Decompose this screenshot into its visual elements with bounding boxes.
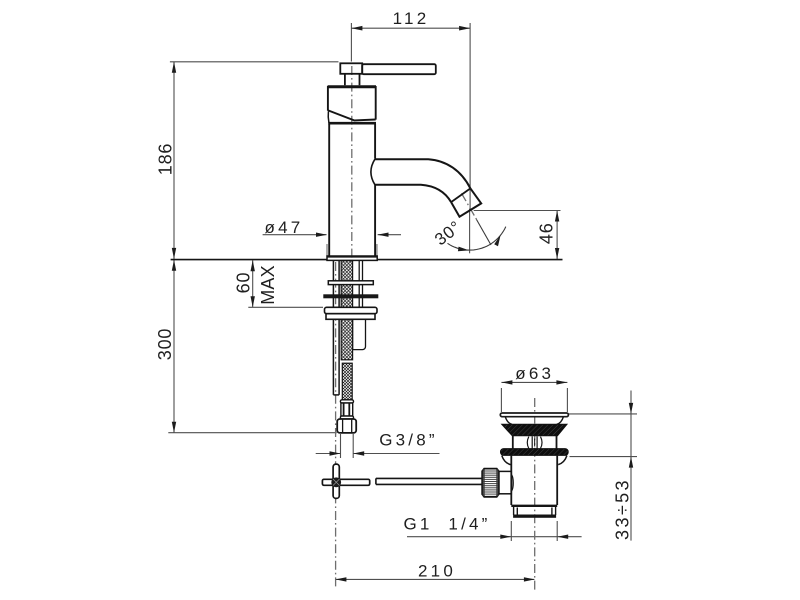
mounting nut (325, 307, 378, 319)
housing top edge (328, 85, 376, 88)
lever bar fill (340, 63, 362, 74)
dimension o47 lines (263, 234, 327, 236)
svg-text:46: 46 (537, 222, 557, 244)
svg-text:ø47: ø47 (265, 218, 304, 237)
threaded shank (crosshatched) (341, 261, 352, 360)
arrows 300 (172, 260, 176, 271)
drain knurled nut (482, 469, 499, 497)
svg-text:MAX: MAX (258, 265, 278, 305)
right hose tube lines (353, 261, 366, 350)
drain plug mechanism (527, 436, 542, 448)
dimension 60 MAX line (252, 260, 254, 307)
arrows 30 degree arc (458, 247, 469, 252)
pop-up rod centerline (335, 262, 337, 589)
arrows 112 (351, 26, 362, 31)
arrowheads (172, 26, 633, 582)
dimension texts (155, 9, 633, 580)
spout fill (375, 158, 482, 216)
dimension 210 line (336, 578, 534, 580)
base flange fill (327, 256, 377, 260)
spout end cap (451, 188, 481, 216)
spout bottom edge (375, 185, 452, 202)
lever bar outline (340, 63, 362, 74)
drain side inlet stub (499, 471, 511, 493)
pop-up tee knurled ball (331, 477, 341, 487)
pop-up tee vertical bar (333, 464, 339, 498)
pop-up tee horizontal bar (322, 479, 369, 485)
arrows 33:53 (629, 403, 633, 414)
arrows o47 (316, 233, 327, 237)
svg-text:112: 112 (393, 9, 430, 28)
drain flange (dark hatched) (501, 449, 569, 456)
faucet body fill (329, 122, 375, 257)
body top edge (328, 122, 376, 125)
svg-text:300: 300 (155, 328, 175, 360)
spout axis solid lower part (477, 220, 492, 246)
drain inlet inner arc (512, 475, 514, 491)
drain cone (dark hatched) (502, 424, 567, 436)
spout axis line (462, 193, 479, 222)
30 degree arc (448, 227, 506, 251)
hose collar ring 2 (340, 416, 353, 419)
drain body bottom edge (511, 505, 557, 507)
stem fill (345, 74, 360, 86)
dimension G1 1/4 (407, 536, 582, 538)
dimension 46 (474, 210, 561, 212)
svg-text:33÷53: 33÷53 (613, 478, 633, 540)
right hose tube fill (353, 261, 366, 350)
arrows 60 MAX (251, 260, 255, 271)
hose hex nut G3/8 (337, 419, 356, 433)
svg-text:210: 210 (418, 561, 456, 580)
washer 1 (328, 281, 373, 285)
drain tailpiece (514, 507, 556, 515)
lever stem outline (345, 74, 360, 86)
drain cap disc (500, 413, 568, 417)
drain flange fillets (502, 456, 567, 465)
deck line (171, 259, 563, 261)
hose ribbed fitting (341, 403, 353, 416)
30 degree vertical leg (469, 209, 471, 254)
rod tube side lines (333, 261, 339, 395)
svg-text:G1 1/4”: G1 1/4” (403, 515, 490, 534)
spout top edge (375, 159, 471, 188)
drain body fill (510, 455, 558, 506)
dimension 33:53 (568, 413, 637, 415)
svg-text:ø63: ø63 (515, 364, 554, 383)
housing sides (328, 86, 376, 120)
braided hose (342, 363, 352, 400)
drain centerline (534, 398, 536, 590)
drain neck fill (512, 435, 558, 450)
drain rod fill (376, 478, 483, 484)
hose collar ring 1 (340, 400, 353, 403)
dimension 112 line (351, 27, 470, 29)
spout aerator joint (451, 188, 470, 202)
svg-text:G3/8”: G3/8” (379, 430, 438, 449)
handle housing fill (328, 86, 376, 120)
faucet centerline (351, 66, 353, 262)
dimension 300 bottom extension line (168, 432, 336, 434)
arrows 46 (555, 211, 559, 222)
arrows 186 (172, 62, 176, 73)
body sides (329, 124, 375, 256)
centerlines (336, 66, 535, 590)
dimension o63 (500, 388, 502, 412)
arrows G3/8 (330, 451, 341, 455)
drain body sides (511, 456, 557, 505)
housing diagonal (328, 110, 376, 120)
svg-text:186: 186 (156, 143, 176, 175)
dimension 186 extension line (170, 61, 339, 63)
rod tube fill (below deck) (333, 261, 339, 395)
drain cap neck curves (505, 417, 563, 425)
spout back arc (371, 159, 375, 185)
drain neck sides (513, 436, 557, 449)
base flange outline (327, 256, 377, 260)
drain rod lines (376, 478, 483, 484)
washer 2 (dark) (323, 294, 378, 298)
dimension 186/300 line (173, 62, 175, 433)
arrows o63 (501, 380, 512, 384)
housing left skirt (327, 112, 330, 123)
dimension 112 extension lines (350, 23, 352, 62)
drain tailpiece fill (514, 507, 556, 518)
arrows G1 1/4 (500, 535, 511, 539)
dimension G3/8 (340, 434, 342, 458)
arrows 210 (335, 577, 346, 581)
svg-text:60: 60 (234, 272, 254, 294)
